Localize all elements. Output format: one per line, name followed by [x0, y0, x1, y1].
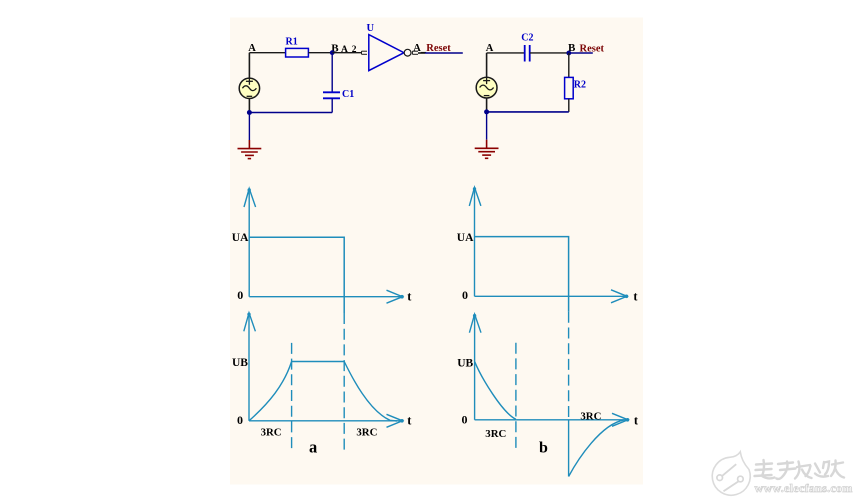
UA axis vertical (right) — [469, 187, 481, 296]
input port symbol — [362, 51, 368, 54]
svg-text:A_: A_ — [413, 43, 427, 54]
bottom rail wire (right) — [487, 111, 569, 113]
watermark logo — [712, 452, 750, 495]
svg-text:0: 0 — [237, 413, 243, 427]
svg-text:UB: UB — [457, 357, 473, 369]
UA pulse waveform (right) — [475, 237, 569, 312]
UA axis vertical (left) — [244, 188, 256, 296]
dashed marker pulse fall (right) — [568, 312, 570, 420]
capacitor C1 wire from node B — [331, 53, 333, 92]
svg-text:3RC: 3RC — [485, 428, 506, 440]
svg-text:3RC: 3RC — [356, 427, 377, 439]
wire R2 to bottom rail (right) — [568, 99, 570, 112]
svg-text:3RC: 3RC — [261, 427, 282, 439]
wire A vertical to source — [248, 53, 250, 78]
UB axis horizontal (left) — [249, 414, 403, 427]
dashed marker 3RC rise (left) — [291, 343, 293, 451]
resistor R1 — [286, 48, 309, 57]
svg-text:R2: R2 — [574, 79, 586, 90]
UA axis arrow dot (left) — [400, 295, 404, 299]
UB axis horizontal (right) — [475, 413, 628, 426]
svg-text:b: b — [539, 439, 548, 456]
UB recovery curve (right) — [569, 420, 624, 477]
dashed marker 3RC decay (right) — [515, 343, 517, 450]
ground (right) — [475, 140, 499, 159]
wire R1 to node B — [308, 52, 332, 54]
inverter output bubble — [404, 49, 411, 56]
svg-text:0: 0 — [462, 413, 468, 427]
wire node B down to R2 — [568, 53, 570, 77]
svg-text:0: 0 — [237, 288, 243, 302]
dashed marker pulse fall (left) — [343, 313, 345, 451]
wire A horizontal to R1 — [249, 52, 285, 54]
svg-text:UB: UB — [232, 357, 248, 369]
UB decay curve (right) — [475, 362, 516, 420]
svg-text:C1: C1 — [342, 89, 354, 100]
svg-text:www.elecfans.com: www.elecfans.com — [755, 481, 853, 495]
op-amp / inverter U triangle — [369, 35, 404, 71]
wire A vertical to source (right) — [486, 53, 488, 77]
wire output stub black — [418, 52, 425, 54]
svg-text:R1: R1 — [286, 37, 298, 48]
ground (left) — [238, 140, 262, 159]
UB discharge curve (left) — [344, 362, 397, 422]
svg-text:0: 0 — [462, 288, 468, 302]
UB charge curve (left) — [249, 362, 292, 421]
output port symbol — [412, 51, 418, 54]
node B junction dot — [330, 50, 335, 55]
UA axis arrow dot (right) — [625, 295, 629, 299]
svg-text:UA: UA — [457, 232, 474, 244]
UA axis horizontal (right) — [475, 290, 628, 303]
svg-text:a: a — [309, 438, 317, 457]
node B junction dot (right) — [566, 51, 571, 56]
capacitor C1 — [323, 92, 340, 98]
watermark CJK strokes — [755, 460, 845, 479]
wire junction to ground — [248, 113, 250, 141]
wire output Reset net (navy) — [425, 52, 463, 54]
wire source to junction — [248, 99, 250, 113]
svg-text:C2: C2 — [521, 32, 533, 43]
wire junction to ground (right) — [486, 112, 488, 140]
UB axis vertical (right) — [469, 314, 481, 420]
UA pulse waveform (left) — [249, 237, 344, 313]
wire C1 to bottom rail — [331, 98, 333, 112]
schematic sheet background — [230, 18, 643, 485]
wire source to junction (right) — [486, 98, 488, 112]
bottom rail junction dot — [247, 110, 252, 115]
svg-text:U: U — [367, 23, 375, 34]
UB axis arrow dot (left) — [400, 419, 404, 423]
capacitor C2 — [525, 45, 530, 62]
ac source V2 — [476, 77, 497, 98]
UB negative spike line (right) — [568, 420, 570, 477]
resistor R2 — [565, 77, 574, 98]
UB axis arrow dot (right) — [626, 418, 630, 422]
svg-text:UA: UA — [232, 232, 249, 244]
wire C2 to node B (right) — [530, 52, 569, 54]
bottom rail junction dot (right) — [484, 109, 489, 114]
UB flat segment (left) — [292, 361, 345, 363]
wire Reset net (right) — [569, 52, 593, 54]
svg-text:Reset: Reset — [426, 43, 451, 54]
UB axis vertical (left) — [244, 313, 256, 421]
wire node B to inverter input port — [332, 52, 361, 54]
bottom rail wire — [249, 112, 332, 114]
wire A to C2 — [487, 52, 525, 54]
ac source V1 — [239, 78, 259, 99]
svg-text:3RC: 3RC — [580, 410, 601, 422]
UA axis horizontal (left) — [249, 290, 402, 303]
